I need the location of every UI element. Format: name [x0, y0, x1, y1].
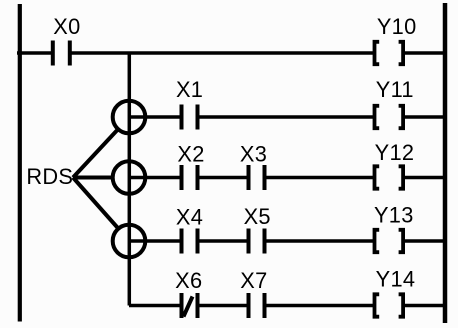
- svg-text:RDS: RDS: [26, 164, 73, 189]
- right power rail: [443, 3, 448, 323]
- svg-text:Y12: Y12: [375, 140, 415, 165]
- coil Y10: [375, 42, 404, 64]
- wire rung2 X1 to coil Y11: [198, 115, 375, 119]
- wire rung5 coil to right rail: [403, 304, 445, 308]
- left power rail: [18, 4, 22, 322]
- wire rung3 X3 to coil Y12: [265, 176, 375, 180]
- svg-text:Y11: Y11: [376, 77, 414, 102]
- contact X6 (NC): [180, 293, 200, 318]
- wire rung3 branch to X2: [129, 176, 182, 180]
- coil Y13: [375, 230, 404, 252]
- contact X4: [180, 229, 200, 254]
- RDS selector arm to circle rung4: [73, 178, 118, 229]
- svg-text:X7: X7: [240, 268, 267, 293]
- wire rung3 coil to right rail: [403, 176, 445, 180]
- wire rung5 X6 to X7: [198, 304, 250, 308]
- wire rung2 branch to X1: [129, 115, 182, 119]
- wire rung5 X7 to coil Y14: [265, 304, 375, 308]
- RDS selector circle node rung3: [113, 161, 146, 194]
- svg-text:X2: X2: [177, 142, 204, 167]
- wire rung3 X2 to X3: [198, 176, 250, 180]
- svg-text:X6: X6: [175, 268, 202, 293]
- svg-text:X0: X0: [53, 14, 80, 39]
- RDS selector circle node rung4: [113, 225, 146, 258]
- svg-text:X5: X5: [244, 204, 271, 229]
- svg-text:Y14: Y14: [376, 267, 416, 292]
- contact X2: [180, 165, 200, 190]
- contact X7: [247, 293, 267, 318]
- svg-text:Y13: Y13: [374, 202, 414, 227]
- RDS selector arm to circle rung2: [73, 129, 118, 177]
- wire rung4 X5 to coil Y13: [265, 239, 375, 243]
- RDS selector circle node rung2: [113, 101, 146, 134]
- wire rung2 coil to right rail: [403, 115, 445, 119]
- contact X0: [51, 41, 72, 66]
- wire rung4 coil to right rail: [403, 239, 445, 243]
- vertical branch wire: [128, 53, 132, 306]
- wire rung4 branch to X4: [129, 239, 182, 243]
- wire rung1 X0 to coil Y10: [70, 51, 374, 55]
- RDS selector arm to circle rung3: [73, 176, 113, 180]
- wire rung4 X4 to X5: [198, 239, 250, 243]
- svg-text:X4: X4: [176, 205, 203, 230]
- svg-text:X3: X3: [240, 142, 267, 167]
- coil Y14: [375, 294, 404, 316]
- wire rung1 coil to right rail: [403, 51, 445, 55]
- contact X1: [180, 105, 200, 130]
- wire rung5 branch to X6: [129, 304, 182, 308]
- svg-text:X1: X1: [176, 77, 203, 102]
- contact X3: [247, 165, 267, 190]
- svg-text:Y10: Y10: [377, 14, 417, 39]
- contact X5: [247, 229, 267, 254]
- coil Y12: [375, 166, 404, 188]
- coil Y11: [375, 106, 404, 128]
- wire rung1 left rail to X0: [17, 51, 53, 55]
